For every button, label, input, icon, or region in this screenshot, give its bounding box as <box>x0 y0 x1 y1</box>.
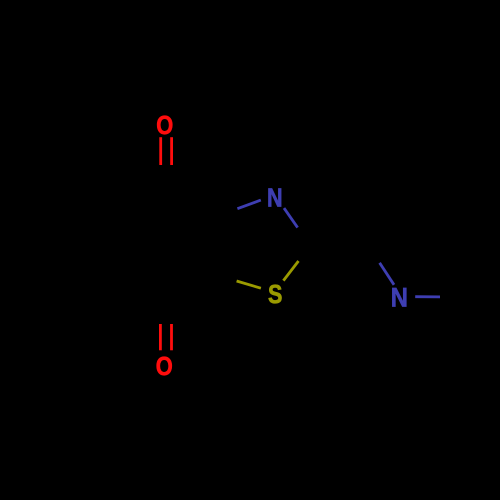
bond N1-C2, N-colored half <box>284 208 298 228</box>
svg-text:N: N <box>391 283 408 313</box>
svg-text:N: N <box>267 184 283 213</box>
svg-text:O: O <box>156 111 173 140</box>
atom N1 (thiazole ring nitrogen) <box>267 184 283 213</box>
bond N2-CH3, N-colored half <box>415 295 440 298</box>
bond C7=O2 double bond, O-colored half, left line <box>159 324 162 350</box>
atom O1 (top ketone oxygen) <box>156 111 173 140</box>
bond S-C7a, S-colored half <box>237 281 261 288</box>
bond S-C2, S-colored half <box>283 261 298 281</box>
bond C4=O1 double bond, O-colored half, left line <box>159 137 162 165</box>
atom O2 (bottom ketone oxygen) <box>156 352 173 381</box>
bond CH2-N2, N-colored half <box>380 263 394 285</box>
atom S (thiazole ring sulfur) <box>268 280 282 309</box>
svg-text:S: S <box>268 280 282 309</box>
bond N1-C3a, N-colored half <box>237 200 260 209</box>
bond C4=O1 double bond, O-colored half, right line <box>170 137 173 165</box>
svg-text:O: O <box>156 352 173 381</box>
atom N2 (methylamino nitrogen) <box>391 283 408 313</box>
bond C7=O2 double bond, O-colored half, right line <box>170 324 173 350</box>
